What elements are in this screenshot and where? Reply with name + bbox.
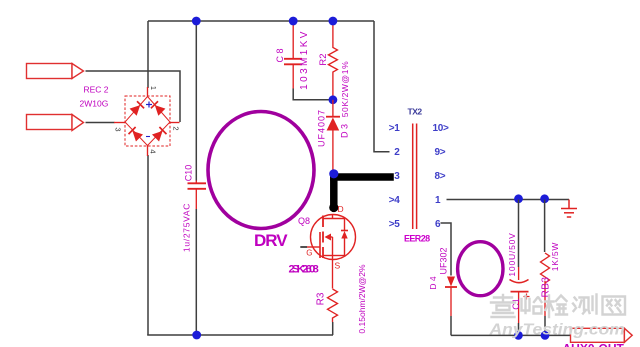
capacitor C1: [510, 200, 530, 336]
diode upper-right: [151, 101, 165, 115]
svg-text:C 8: C 8: [275, 48, 285, 62]
connector input arrow bottom: [27, 115, 84, 131]
junction dot drain node: [329, 169, 338, 178]
wire TX2 pin6 elbow down: [441, 223, 452, 276]
wire left vertical (top rail to bridge pin 1): [147, 21, 149, 88]
junction dot top rail x293: [289, 17, 298, 26]
svg-text:UF4007: UF4007: [317, 109, 327, 147]
svg-text:2: 2: [172, 126, 181, 130]
svg-text:8>: 8>: [435, 171, 446, 182]
svg-text:UF302: UF302: [439, 247, 449, 274]
svg-text:10>: 10>: [433, 123, 450, 134]
svg-text:1K/5W: 1K/5W: [550, 242, 560, 272]
junction dot C1 top: [514, 194, 523, 203]
svg-text:1: 1: [435, 195, 441, 206]
svg-text:G: G: [306, 249, 312, 258]
output choke winding: [458, 242, 503, 296]
svg-text:6: 6: [435, 219, 441, 230]
thick wire drain to TX2 pin 3: [329, 174, 394, 213]
resistor R3: [328, 260, 338, 336]
wire bottom rail left: [147, 334, 333, 336]
junction dot bottom RB3: [541, 331, 550, 340]
wire from top arrow to bridge pin 2 corner: [86, 71, 181, 122]
transistor Q8 (MOSFET): [300, 215, 355, 260]
resistor RB3: [541, 200, 550, 336]
wire bottom rail right: [451, 334, 571, 336]
svg-text:4: 4: [149, 149, 158, 153]
plus mark: [146, 102, 152, 108]
ground: [561, 200, 577, 218]
svg-text:50K/2W@1%: 50K/2W@1%: [340, 61, 350, 118]
gate stub: [300, 246, 307, 248]
wire top rail: [148, 20, 374, 22]
wire bridge pin 4 to bottom rail: [147, 155, 149, 335]
svg-text:AnyTesting.com: AnyTesting.com: [488, 320, 625, 338]
svg-text:R3: R3: [316, 292, 327, 305]
svg-text:9>: 9>: [435, 147, 446, 158]
svg-text:1u/275VAC: 1u/275VAC: [182, 203, 192, 252]
svg-text:REC 2: REC 2: [84, 85, 109, 95]
svg-text:100U/50V: 100U/50V: [507, 232, 517, 276]
svg-text:C10: C10: [184, 165, 194, 182]
svg-text:AUX0-OUT: AUX0-OUT: [563, 341, 625, 347]
svg-text:TX2: TX2: [408, 107, 423, 117]
capacitor C10: [188, 21, 207, 335]
minus mark: [146, 136, 150, 138]
diode lower-left: [129, 127, 143, 141]
svg-text:>1: >1: [389, 123, 401, 134]
junction dot top rail x196: [192, 17, 201, 26]
svg-text:1: 1: [149, 86, 158, 90]
diode lower-right: [152, 127, 166, 141]
svg-text:2: 2: [394, 147, 400, 158]
svg-text:EER28: EER28: [404, 234, 430, 244]
svg-text:Q8: Q8: [298, 216, 310, 226]
wire C8 to R2 junction elbow: [293, 89, 333, 100]
svg-text:D: D: [338, 204, 344, 214]
junction dot bottom rail x196: [192, 331, 201, 340]
transformer primary winding: [208, 112, 314, 229]
wire TX2 pin1 to ground rail: [447, 199, 570, 201]
transformer TX2: [413, 124, 417, 230]
svg-text:S: S: [335, 261, 341, 271]
junction dot RB3 top: [540, 194, 549, 203]
watermark chinese characters: [491, 295, 625, 318]
svg-text:DRV: DRV: [254, 231, 288, 250]
svg-text:>5: >5: [389, 219, 401, 230]
wire from bottom arrow to bridge pin 3: [86, 122, 115, 124]
connector input arrow top: [27, 64, 84, 79]
diode D3: [326, 100, 340, 170]
capacitor C8: [284, 21, 302, 89]
svg-text:3: 3: [114, 127, 123, 131]
svg-text:2SK2608: 2SK2608: [289, 264, 319, 276]
connector AUX0-OUT arrow: [571, 328, 633, 342]
svg-text:D 4: D 4: [428, 276, 438, 290]
diode D4: [445, 277, 457, 336]
bridge rectifier REC2: [114, 86, 181, 156]
svg-text:C1: C1: [511, 298, 521, 310]
junction dot C8/R2/D3: [329, 95, 338, 104]
svg-text:D 3: D 3: [340, 124, 350, 138]
svg-text:3: 3: [394, 171, 400, 182]
svg-text:103M1KV: 103M1KV: [299, 29, 310, 90]
svg-text:0.15ohm/2W@2%: 0.15ohm/2W@2%: [357, 264, 367, 334]
resistor R2: [328, 21, 337, 100]
diode upper-left: [130, 101, 144, 115]
svg-text:R2: R2: [318, 53, 329, 65]
svg-text:>4: >4: [389, 195, 401, 206]
junction dot bottom C1: [514, 331, 523, 340]
junction dot top rail x333: [329, 17, 338, 26]
svg-text:2W10G: 2W10G: [80, 99, 109, 109]
wire top rail right corner to TX2 pin 2: [374, 21, 390, 152]
